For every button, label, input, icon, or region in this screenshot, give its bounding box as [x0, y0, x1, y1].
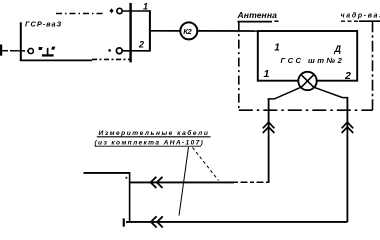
svg-text:чадр-ваз: чадр-ваз [341, 12, 380, 20]
right feeder riser wire [346, 98, 348, 222]
right border of generator box [129, 3, 131, 62]
left feed diagonal from mixer [268, 88, 301, 99]
terminal + (plus output) [110, 8, 123, 13]
measuring cable wire 1 [130, 181, 234, 183]
node bracket (output connector) [149, 10, 151, 51]
left feeder riser wire [268, 99, 270, 183]
wire K2 to shielded room [198, 30, 259, 32]
bottom border of generator box [20, 59, 92, 61]
svg-text:К2: К2 [183, 27, 192, 36]
cable 2 end tick [123, 218, 125, 226]
cable 2 chevron arrows (left) [151, 216, 163, 227]
right feed diagonal from mixer [315, 87, 349, 97]
measuring cable wire 2 [126, 221, 347, 223]
terminal · (common output) [108, 48, 122, 54]
incoming wire bottom-left [84, 172, 131, 174]
shielded room (dash-dot box) top border / label underlines [238, 20, 380, 22]
svg-text:1: 1 [143, 1, 148, 11]
leader to cable 1 (dashed) [193, 148, 219, 181]
svg-text:Д: Д [334, 44, 342, 54]
svg-text:2: 2 [138, 40, 144, 50]
svg-text:2: 2 [344, 70, 351, 82]
ground symbol in quotes [39, 47, 56, 56]
svg-text:(из комплекта АНА-107): (из комплекта АНА-107) [95, 140, 203, 147]
svg-text:Измерительные кабели: Измерительные кабели [99, 129, 208, 137]
device box ГСС [258, 31, 357, 81]
wire from + terminal to node 1 [122, 10, 150, 12]
antenna mixer circle X [298, 72, 316, 90]
junction vertical wire [129, 173, 131, 222]
generator box G1 (left instrument) [20, 3, 131, 62]
callout underline 2 [95, 145, 202, 147]
ground terminal circle [28, 48, 33, 53]
shielded room left border [238, 22, 240, 111]
svg-text:ГСС шт№2: ГСС шт№2 [281, 56, 343, 65]
noise dot near junction [126, 177, 128, 179]
callout underline [97, 136, 211, 138]
shielded room right border [372, 21, 374, 110]
shielded room bottom border [239, 109, 373, 111]
svg-text:1: 1 [274, 42, 280, 53]
relay contact K2 [180, 22, 197, 39]
svg-text:Антенна: Антенна [237, 10, 278, 20]
left edge terminal bar [0, 45, 2, 56]
leader to cable 2 (solid) [179, 147, 189, 216]
svg-text:1: 1 [264, 68, 270, 80]
wire from · terminal to node 2 [122, 50, 150, 52]
left border of generator box [20, 22, 22, 60]
svg-text:ГСР-ваЗ: ГСР-ваЗ [25, 20, 62, 29]
top border (dashed) of generator box [56, 13, 103, 15]
wire from left edge to ground terminal [2, 50, 28, 52]
left riser chevron arrows (up) [263, 122, 275, 133]
cable 1 chevron arrows (left) [151, 177, 163, 188]
right riser chevron arrows (up) [342, 122, 354, 133]
wire bracket to relay K2 [150, 30, 180, 32]
